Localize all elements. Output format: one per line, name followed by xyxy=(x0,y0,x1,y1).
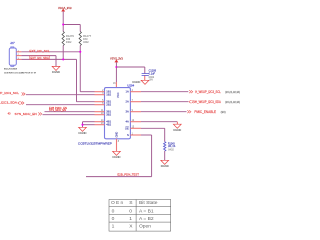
svg-text:E2B_PDN_TEST: E2B_PDN_TEST xyxy=(117,173,139,177)
svg-text:OE: OE xyxy=(125,126,129,130)
svg-text:P_I2C3_SDA: P_I2C3_SDA xyxy=(0,101,17,105)
svg-text:2B2: 2B2 xyxy=(106,103,111,107)
svg-text:3A: 3A xyxy=(126,110,129,114)
svg-text:EXT_I2C_SDA: EXT_I2C_SDA xyxy=(30,56,48,60)
svg-text:(30): (30) xyxy=(221,110,226,114)
svg-text:OEn: OEn xyxy=(111,200,123,206)
svg-text:0402: 0402 xyxy=(83,41,89,44)
svg-text:J27: J27 xyxy=(10,41,15,45)
svg-text:GND: GND xyxy=(114,132,118,138)
svg-text:H_WKUP_I2C3_SCL: H_WKUP_I2C3_SCL xyxy=(195,90,221,94)
svg-text:U294: U294 xyxy=(127,84,134,88)
svg-text:CON HDR 1X3 2.00MM PITCH ST TH: CON HDR 1X3 2.00MM PITCH ST TH xyxy=(4,73,36,75)
svg-text:Bit State: Bit State xyxy=(139,200,158,206)
svg-text:UP_I2C3_SCL: UP_I2C3_SCL xyxy=(0,91,19,95)
svg-text:DGND: DGND xyxy=(113,155,121,159)
svg-text:(20,21,32,34): (20,21,32,34) xyxy=(225,90,240,94)
svg-text:VCC: VCC xyxy=(116,92,120,98)
svg-text:1: 1 xyxy=(129,216,132,222)
svg-text:SYS_MCU_EN: SYS_MCU_EN xyxy=(49,108,66,112)
svg-text:PMIC_ENABLE: PMIC_ENABLE xyxy=(194,110,216,114)
svg-text:4B2: 4B2 xyxy=(106,123,111,127)
svg-text:2A: 2A xyxy=(126,100,129,104)
svg-text:EXT_I2C_SCL: EXT_I2C_SCL xyxy=(29,49,50,53)
svg-text:1: 1 xyxy=(112,224,115,230)
svg-text:902-2510308: 902-2510308 xyxy=(4,69,18,71)
svg-text:4A: 4A xyxy=(126,120,129,124)
svg-text:Open: Open xyxy=(139,224,151,230)
svg-text:0402: 0402 xyxy=(168,148,174,151)
svg-text:40: 40 xyxy=(8,112,11,116)
svg-text:A = B2: A = B2 xyxy=(139,216,154,222)
svg-text:0: 0 xyxy=(129,208,132,214)
svg-text:X: X xyxy=(129,224,133,230)
svg-text:1B2: 1B2 xyxy=(106,93,111,97)
svg-text:8: 8 xyxy=(118,141,120,143)
svg-text:1A: 1A xyxy=(126,90,129,94)
svg-text:VCCA_3V3: VCCA_3V3 xyxy=(58,6,72,10)
svg-text:S: S xyxy=(129,200,133,206)
svg-text:SYS_MCU_EN: SYS_MCU_EN xyxy=(15,112,37,116)
svg-text:16V: 16V xyxy=(149,79,154,82)
svg-text:3B2: 3B2 xyxy=(106,113,111,117)
svg-text:0402: 0402 xyxy=(66,41,72,44)
svg-text:DGND: DGND xyxy=(52,70,60,74)
svg-text:DGND: DGND xyxy=(173,128,181,132)
svg-text:DGND: DGND xyxy=(79,131,87,135)
svg-text:DGND: DGND xyxy=(161,164,169,168)
svg-text:CCBTLV3257MPWREP: CCBTLV3257MPWREP xyxy=(78,141,112,145)
svg-text:0: 0 xyxy=(112,208,115,214)
svg-text:(20,21,32,34): (20,21,32,34) xyxy=(225,100,240,104)
svg-text:0: 0 xyxy=(112,216,115,222)
svg-text:H_WKUP_I2C3_SDA: H_WKUP_I2C3_SDA xyxy=(195,100,221,104)
svg-text:A = B1: A = B1 xyxy=(139,208,154,214)
svg-text:S: S xyxy=(127,133,129,137)
svg-text:16: 16 xyxy=(113,83,116,85)
